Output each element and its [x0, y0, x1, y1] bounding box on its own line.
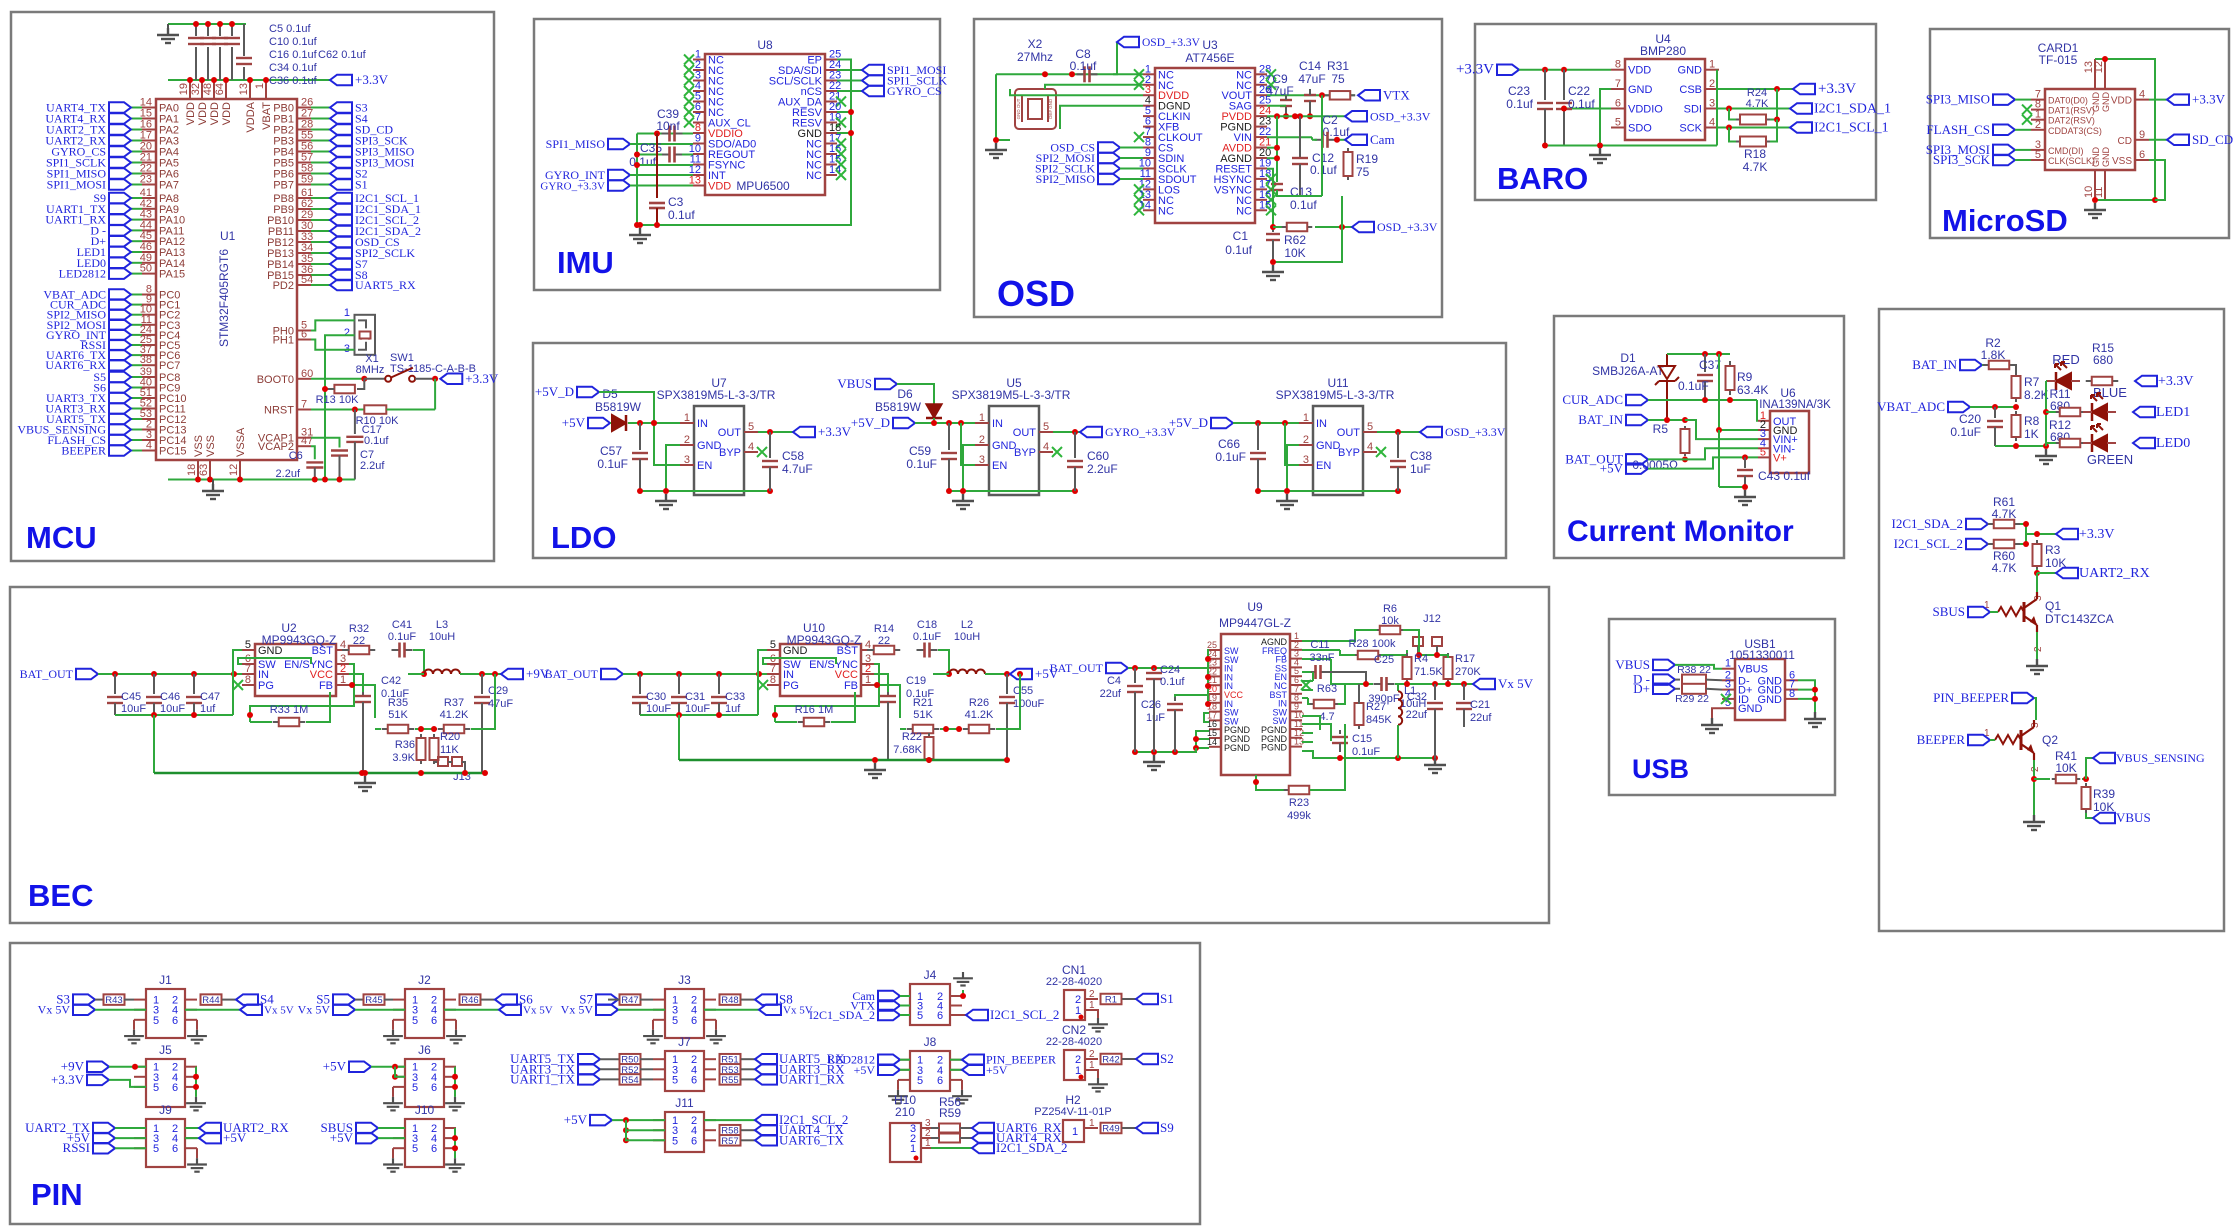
U9 pin 9 SW — [1290, 710, 1302, 712]
U4 pin 4 SCK — [1705, 127, 1719, 129]
svg-text:USB: USB — [1632, 754, 1689, 784]
capacitor C45 10uF — [114, 674, 116, 694]
wire SPI3_SCK — [311, 140, 330, 142]
svg-text:GYRO_+3.3V: GYRO_+3.3V — [1105, 425, 1176, 439]
boxed resistor R55 — [720, 1074, 741, 1085]
svg-text:GYRO_CS: GYRO_CS — [887, 84, 942, 98]
net flag I2C1_SDA_2 r — [1966, 519, 1988, 530]
U8 pin 6 NC — [693, 111, 705, 113]
svg-text:4: 4 — [146, 440, 152, 452]
svg-text:75: 75 — [1356, 165, 1370, 179]
net flag GYRO_+3.3V — [608, 180, 630, 191]
svg-text:OUT: OUT — [1013, 427, 1037, 439]
svg-text:+5V_D: +5V_D — [851, 415, 890, 430]
net flag SPI1_MISO — [608, 139, 630, 150]
svg-text:GND: GND — [1678, 65, 1703, 77]
wire j10 right stubs — [454, 1128, 456, 1158]
svg-text:1: 1 — [1725, 658, 1731, 670]
resistor R59 — [939, 1134, 960, 1143]
U1 pin 9 PC1 — [142, 304, 156, 306]
wire en u5 — [961, 423, 975, 465]
U1 pin 10 PC2 — [142, 314, 156, 316]
svg-text:C46: C46 — [160, 691, 180, 703]
U5 pin 3 EN — [975, 464, 989, 466]
U1 pin 44 PA11 — [142, 229, 156, 231]
ground mcu top — [167, 24, 169, 28]
net flag UART4_TX j11 — [755, 1125, 777, 1136]
U7 pin 5 OUT — [744, 431, 758, 433]
svg-text:C25: C25 — [1374, 654, 1394, 666]
U1 pin 61 PB8 — [297, 197, 311, 199]
net flag +5V_D u5 — [893, 418, 915, 429]
net flag GYRO_CS — [837, 90, 862, 92]
svg-text:C29: C29 — [488, 685, 508, 697]
svg-text:+3.3V: +3.3V — [2079, 527, 2115, 542]
wire U9 vcc — [1175, 695, 1209, 697]
U8 pin 25 EP — [825, 59, 837, 61]
U11 pin 4 BYP — [1363, 451, 1377, 453]
ground usb right — [1804, 712, 1826, 727]
CARD1 bottom pins 10 11 GND — [2094, 170, 2096, 200]
imu U8 MPU6500 — [705, 54, 825, 195]
svg-text:8: 8 — [1615, 59, 1621, 71]
wire cap bottom bus bec — [115, 714, 233, 716]
net flag +5V_D u7 — [577, 387, 599, 398]
svg-text:C10 0.1uf: C10 0.1uf — [269, 36, 318, 48]
svg-text:DAT0(D0): DAT0(D0) — [2048, 96, 2088, 106]
U4 pin 1 GND — [1705, 69, 1719, 71]
U1 pin 51 PC10 — [142, 397, 156, 399]
capacitor C30 10uF — [639, 674, 641, 694]
net flag VTX j4 — [878, 1000, 900, 1011]
svg-text:IN: IN — [697, 418, 708, 430]
svg-text:6: 6 — [172, 1015, 178, 1027]
capacitor C38 1uF — [1397, 432, 1399, 458]
svg-text:1: 1 — [1303, 412, 1309, 424]
svg-text:R19: R19 — [1356, 152, 1378, 166]
net flag Vx 5V j2l — [333, 1004, 355, 1015]
wire usb right gnd — [1798, 680, 1815, 712]
svg-text:7.68K: 7.68K — [893, 744, 922, 756]
svg-text:PA15: PA15 — [159, 269, 185, 281]
current monitor U6 INA139NA/3K — [1770, 411, 1809, 473]
net flag +5V_D u11 — [1211, 418, 1233, 429]
svg-text:Q1: Q1 — [2045, 599, 2061, 613]
svg-text:5: 5 — [1760, 446, 1766, 458]
net flag OSD_CS — [1098, 142, 1120, 153]
U1 pin 21 PA5 — [142, 162, 156, 164]
net flag BAT_IN led — [1960, 360, 1982, 371]
net flag RSSI — [93, 1143, 115, 1154]
U9 pin 6 NC — [1290, 684, 1302, 686]
svg-text:6: 6 — [691, 1135, 697, 1147]
wire S9 — [131, 197, 142, 199]
net flag S8 — [330, 270, 352, 281]
wire fb mid node — [415, 728, 437, 730]
net flag Vx 5V bec — [1473, 679, 1495, 690]
U8 pin 15 NC — [825, 164, 837, 166]
USB1 pin 2 D- — [1722, 679, 1735, 681]
connector CN2 22-28-4020 — [1064, 1050, 1085, 1080]
wire U9 in rail — [1208, 650, 1209, 668]
svg-text:5: 5 — [1615, 117, 1621, 129]
svg-text:MPU6500: MPU6500 — [736, 179, 790, 193]
U1 pin 7 NRST — [297, 409, 311, 411]
U3 pin 8 CS — [1143, 147, 1155, 149]
wire out u7 — [758, 431, 793, 433]
wire fsync — [637, 164, 693, 166]
svg-text:10nf: 10nf — [656, 119, 680, 133]
net flag S2 — [1136, 1054, 1158, 1065]
net flag I2C1_SCL_2 j11 — [755, 1115, 777, 1126]
net flag S9 — [109, 193, 131, 204]
svg-text:FLASH_CS: FLASH_CS — [1926, 122, 1990, 137]
net flag OSD_+3.3V right — [1345, 111, 1367, 122]
net flag UART2_TX — [109, 124, 131, 135]
U8 pin 2 NC — [693, 69, 705, 71]
net flag BAT_OUT bec — [76, 669, 98, 680]
wire j5 right stubs — [195, 1067, 197, 1097]
svg-text:SPX3819M5-L-3-3/TR: SPX3819M5-L-3-3/TR — [657, 388, 776, 402]
wire U9 pgnd left — [1196, 731, 1209, 748]
wire gnd pin5 — [758, 650, 767, 715]
svg-text:CD: CD — [2118, 136, 2132, 147]
wire dgnd — [1045, 85, 1143, 89]
svg-text:R46: R46 — [461, 995, 478, 1006]
svg-text:VDDA: VDDA — [245, 101, 257, 132]
capacitor C7 2.2uf — [311, 438, 340, 448]
net flag SPI2_MOSI — [109, 320, 131, 331]
net flag S4 — [236, 994, 258, 1005]
CARD1 pin 5 CLK(SCLK) — [2031, 159, 2045, 161]
svg-text:4.7: 4.7 — [1319, 711, 1334, 723]
U9 pin 7 BST — [1290, 693, 1302, 695]
net flag UART4_RX — [109, 113, 131, 124]
U8 pin 8 VDDIO — [693, 132, 705, 134]
svg-text:R1: R1 — [1105, 995, 1117, 1006]
resistor R39 10K — [2085, 783, 2087, 787]
net flag Vx 5V j1r — [185, 1009, 240, 1011]
wire vddio — [1564, 108, 1611, 110]
H2 pin1 wire — [1084, 1127, 1098, 1129]
svg-text:GND: GND — [1316, 440, 1341, 452]
wire sw right rail — [1302, 716, 1320, 730]
svg-text:8MHz: 8MHz — [356, 364, 385, 376]
capacitor C23 0.1uf — [1544, 70, 1546, 100]
wire vcc c42 — [349, 674, 363, 692]
svg-text:EN: EN — [992, 460, 1007, 472]
svg-text:5: 5 — [412, 1143, 418, 1155]
net flag S3 — [330, 102, 352, 113]
U7 pin 1 IN — [680, 422, 694, 424]
svg-text:BYP: BYP — [1014, 447, 1036, 459]
net flag SPI3_MOSI — [330, 157, 352, 168]
wire out u11 — [1377, 431, 1420, 433]
svg-text:4: 4 — [748, 441, 754, 453]
boxed resistor R54 — [600, 1078, 620, 1080]
CARD1 pin 7 DAT0(D0) — [2031, 99, 2045, 101]
net flag VBUS r — [2086, 813, 2093, 818]
wire UART1_TX — [131, 208, 142, 210]
svg-text:BST: BST — [312, 645, 334, 657]
svg-text:UART2_RX: UART2_RX — [2079, 566, 2150, 581]
ground j2 left — [392, 1020, 394, 1030]
U10 pin 8 PG — [767, 684, 780, 686]
U3 pin 14 NC — [1143, 209, 1155, 211]
wire vx5v rail — [1395, 683, 1473, 685]
svg-text:0.1uF: 0.1uF — [1215, 450, 1246, 464]
svg-text:R13 10K: R13 10K — [316, 394, 359, 406]
CN1 pin1 gnd — [1085, 1010, 1098, 1018]
svg-text:C30: C30 — [646, 691, 666, 703]
svg-text:SPI1_MOSI: SPI1_MOSI — [47, 178, 106, 192]
svg-text:2: 2 — [979, 434, 985, 446]
svg-text:C33: C33 — [725, 691, 745, 703]
net flag I2C1_SCL_2 r — [1966, 539, 1988, 550]
net flag UART1_RX — [755, 1074, 777, 1085]
svg-text:R21: R21 — [913, 697, 933, 709]
svg-text:1uf: 1uf — [725, 703, 741, 715]
svg-text:Vx 5V: Vx 5V — [38, 1003, 71, 1017]
ldo U11 SPX3819M5-L-3-3/TR — [1313, 406, 1363, 495]
ground u5 — [952, 494, 974, 509]
U1 pin 42 PA9 — [142, 208, 156, 210]
wire r41 node — [2082, 778, 2086, 780]
svg-text:C47: C47 — [200, 691, 220, 703]
U8 pin 5 NC — [693, 101, 705, 103]
svg-text:PG: PG — [258, 680, 274, 692]
resistor R10 10K — [364, 405, 386, 414]
svg-text:DAT1(RSV): DAT1(RSV) — [2048, 106, 2095, 116]
wire PH0 to crystal pin1 — [311, 320, 355, 330]
capacitor C19 0.1uF mid — [887, 692, 889, 696]
U8 pin 17 NC — [825, 143, 837, 145]
svg-text:5: 5 — [412, 1015, 418, 1027]
svg-text:R7: R7 — [2024, 375, 2040, 389]
svg-text:C22: C22 — [1568, 84, 1590, 98]
wire q1 emitter gnd — [2036, 632, 2038, 659]
U8 pin 24 SDA/SDI — [825, 69, 837, 71]
ground j4 top right — [953, 972, 973, 986]
svg-text:6: 6 — [937, 1010, 943, 1022]
svg-text:PB7: PB7 — [273, 180, 294, 192]
svg-text:R18: R18 — [1744, 147, 1766, 161]
svg-text:6: 6 — [691, 1015, 697, 1027]
net flag SPI1_MOSI — [109, 179, 131, 190]
svg-text:R55: R55 — [721, 1075, 738, 1086]
net flag UART5_TX — [109, 414, 131, 425]
svg-text:SD_CD: SD_CD — [2192, 132, 2233, 147]
svg-text:LED0: LED0 — [2156, 436, 2190, 451]
section box BARO — [1475, 24, 1876, 200]
svg-text:J1: J1 — [159, 973, 172, 987]
capacitor C31 10uF — [678, 674, 680, 694]
U8 pin 22 nCS — [825, 90, 837, 92]
svg-text:2: 2 — [2033, 646, 2044, 652]
svg-text:0.1uF: 0.1uF — [913, 631, 941, 643]
net flag +5V j6 — [349, 1061, 371, 1072]
net flag UART4_TX — [109, 102, 131, 113]
svg-text:CUR_ADC: CUR_ADC — [1562, 392, 1623, 407]
svg-text:VBUS_SENSING: VBUS_SENSING — [2116, 751, 2205, 765]
wire GYRO_INT — [131, 334, 142, 336]
net flag +3.3V i2c — [2056, 529, 2078, 540]
svg-text:VSS: VSS — [2112, 156, 2132, 167]
CN2 pin2 wire — [1085, 1058, 1098, 1060]
capacitor C37 0.1uF — [1704, 354, 1706, 372]
wire UART4_RX — [131, 118, 142, 120]
svg-text:C3: C3 — [668, 195, 684, 209]
net flag S9 h2 — [1136, 1123, 1158, 1134]
svg-text:CMD(DI): CMD(DI) — [2048, 146, 2084, 156]
wire en loop — [775, 664, 879, 715]
net flag S6 — [109, 382, 131, 393]
U3 pin 28 NC — [1255, 73, 1267, 75]
net flag I2C1_SDA_2 h10 — [931, 1147, 972, 1149]
U1 pin 2 PC13 — [142, 429, 156, 431]
svg-text:2: 2 — [684, 434, 690, 446]
capacitor C8 0.1uf — [1077, 73, 1085, 75]
svg-text:+5V: +5V — [564, 1112, 588, 1127]
svg-text:+5V: +5V — [986, 1063, 1008, 1077]
svg-text:0.1uF: 0.1uF — [1950, 425, 1981, 439]
U9 pin 16 PGND — [1209, 728, 1221, 730]
svg-text:+5V_D: +5V_D — [535, 384, 574, 399]
svg-text:U8: U8 — [757, 38, 773, 52]
svg-text:C4: C4 — [1107, 675, 1121, 687]
svg-text:B5819W: B5819W — [875, 400, 922, 414]
svg-text:C1: C1 — [1233, 229, 1249, 243]
U9 pin 3 FB — [1290, 658, 1302, 660]
svg-text:5: 5 — [917, 1075, 923, 1087]
svg-text:3.9K: 3.9K — [392, 752, 415, 764]
svg-text:10uH: 10uH — [954, 631, 980, 643]
svg-text:R37: R37 — [444, 697, 464, 709]
net flag Cam j4 — [878, 991, 900, 1002]
svg-text:R48: R48 — [721, 995, 738, 1006]
capacitor C35 0.1uf — [662, 154, 670, 156]
svg-text:5: 5 — [672, 1135, 678, 1147]
wire xfb — [1060, 106, 1143, 129]
net flag +3.3V u7 — [793, 427, 815, 438]
U9 pin 17 SW — [1209, 719, 1221, 721]
svg-text:0.1uf: 0.1uf — [364, 435, 389, 447]
svg-text:GND: GND — [2101, 92, 2111, 113]
wire ss en — [1302, 680, 1313, 682]
svg-text:PG: PG — [783, 680, 799, 692]
connector J1 — [146, 989, 185, 1038]
boxed resistor R53 — [720, 1064, 741, 1075]
net flag +5V j9 — [93, 1133, 115, 1144]
wire j6 right stubs — [454, 1067, 456, 1097]
wire fb mid node — [940, 728, 962, 730]
net flag LED2812 — [109, 268, 131, 279]
svg-text:VBAT: VBAT — [261, 102, 273, 130]
wire UART4_TX — [131, 107, 142, 109]
net flag LED0 — [2133, 438, 2155, 449]
net flag +3.3V microsd — [2149, 99, 2167, 101]
CARD1 pin 9 CD — [2135, 139, 2149, 141]
net flag +5V u7 — [588, 418, 610, 429]
wire RSSI — [131, 344, 142, 346]
capacitor C12 0.1uf — [1297, 113, 1303, 119]
U7 pin 3 EN — [680, 464, 694, 466]
wire bst to L — [413, 650, 424, 674]
U8 pin 19 RESV — [825, 122, 837, 124]
wire gnd u11 — [1287, 445, 1299, 491]
power flag +3.3V boot0 — [440, 374, 462, 385]
wire +5V to V+ — [1648, 457, 1758, 468]
net flag S6 — [495, 994, 517, 1005]
U8 pin 20 RESV — [825, 111, 837, 113]
svg-text:GND: GND — [2091, 147, 2101, 168]
CN1 pin2 wire — [1085, 998, 1098, 1000]
ground usb left — [1701, 718, 1723, 733]
U1 pin 14 PA0 — [142, 107, 156, 109]
svg-text:VBUS: VBUS — [1615, 657, 1650, 672]
wire gnd pin2 — [1719, 429, 1758, 431]
svg-text:C66: C66 — [1218, 437, 1240, 451]
ldo U5 SPX3819M5-L-3-3/TR — [989, 406, 1039, 495]
U3 pin 15 NC — [1255, 209, 1267, 211]
svg-text:SMBJ26A-AT: SMBJ26A-AT — [1592, 364, 1664, 378]
net flag S7 — [330, 259, 352, 270]
U7 pin 4 BYP — [744, 451, 758, 453]
svg-text:C57: C57 — [600, 444, 622, 458]
connector J5 — [146, 1059, 185, 1107]
U1 pin 56 PB4 — [297, 151, 311, 153]
svg-text:BST: BST — [837, 645, 859, 657]
svg-text:S1: S1 — [1160, 991, 1174, 1006]
U3 pin 6 XFB — [1143, 126, 1155, 128]
section box OSD — [974, 19, 1442, 317]
U1 pin 30 PB11 — [297, 230, 311, 232]
net flag output bec — [501, 669, 523, 680]
net flag BEEPER r — [1968, 735, 1990, 746]
bottom power pins VSS VSSA — [197, 460, 199, 478]
ground j3 left — [652, 1020, 654, 1030]
U3 pin 17 VSYNC — [1255, 188, 1267, 190]
svg-text:J4: J4 — [924, 968, 937, 982]
svg-text:LDO: LDO — [551, 520, 616, 555]
resistor R20 11K — [433, 734, 435, 738]
svg-text:1: 1 — [344, 307, 350, 319]
resistor R17 270K vertical — [1447, 653, 1449, 657]
wire r28 right — [1381, 650, 1407, 655]
ground j6 left — [392, 1087, 394, 1097]
net flag UART3_TX — [109, 393, 131, 404]
net flag SPI1_SCLK — [837, 80, 862, 82]
svg-text:10uF: 10uF — [160, 703, 185, 715]
section box BEC — [10, 587, 1549, 923]
svg-text:4.7K: 4.7K — [1992, 561, 2017, 575]
usb USB1 1051330011 — [1735, 659, 1785, 720]
svg-text:VDD: VDD — [708, 181, 731, 193]
svg-text:R28 100k: R28 100k — [1348, 638, 1396, 650]
svg-text:R63: R63 — [1317, 683, 1337, 695]
wire BEEPER — [131, 450, 142, 452]
svg-text:5: 5 — [770, 639, 776, 651]
svg-text:0.1uF: 0.1uF — [1352, 746, 1380, 758]
connector J8 — [910, 1051, 950, 1091]
wire i2c1 scl j11 — [704, 1119, 755, 1121]
U8 pin 13 VDD — [693, 185, 705, 187]
net flag S3 — [73, 994, 95, 1005]
svg-text:VDD: VDD — [197, 102, 209, 125]
net flag UART3_RX — [755, 1064, 777, 1075]
svg-text:2: 2 — [1089, 1049, 1095, 1060]
svg-text:0.1uF: 0.1uF — [597, 457, 628, 471]
